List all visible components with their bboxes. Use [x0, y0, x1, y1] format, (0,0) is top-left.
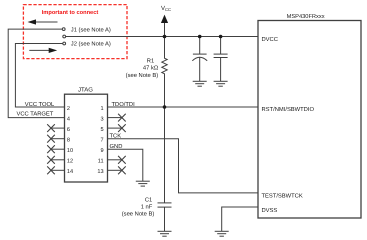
svg-text:JTAG: JTAG [78, 87, 93, 94]
TCK wire to TEST [108, 139, 259, 193]
svg-text:5: 5 [100, 127, 103, 133]
pin6 nc wire [51, 127, 65, 129]
pin10 nc wire [51, 148, 65, 150]
X pin5 [118, 124, 126, 132]
svg-text:R1: R1 [147, 58, 154, 64]
pin12 nc wire [51, 159, 65, 161]
junction dot TDO/R1 [163, 105, 167, 109]
Vcc arrow head [161, 15, 168, 23]
pin11 nc wire [108, 159, 122, 161]
jumper J1 pin circle [62, 28, 65, 31]
svg-text:J2 (see Note A): J2 (see Note A) [71, 41, 111, 48]
svg-text:2: 2 [67, 106, 70, 112]
svg-text:(see Note B): (see Note B) [126, 72, 159, 79]
svg-text:(see Note B): (see Note B) [122, 210, 155, 217]
X pin6 [47, 124, 55, 132]
svg-text:3: 3 [100, 117, 103, 123]
svg-text:8: 8 [67, 138, 70, 144]
ground for C1 [158, 231, 172, 236]
ground for CB [214, 81, 228, 86]
X pin14 [47, 166, 55, 174]
capacitor CA vertical bottom [199, 57, 201, 81]
resistor R1 [162, 37, 167, 108]
Vcc symbol stem [164, 23, 166, 37]
svg-text:GND: GND [110, 143, 123, 150]
capacitor CA vertical top [199, 37, 201, 55]
svg-text:47 kΩ: 47 kΩ [143, 65, 159, 72]
pin8 nc wire [51, 138, 65, 140]
pin5 nc wire [108, 127, 122, 129]
jumper mid pin circle [63, 35, 66, 38]
ground for CA [193, 81, 207, 86]
svg-text:11: 11 [98, 159, 104, 165]
pin3 nc wire [108, 117, 122, 119]
junction dot Vcc/R1 [163, 35, 167, 39]
svg-text:MSP430FRxxx: MSP430FRxxx [287, 14, 325, 20]
svg-text:VCC TOOL: VCC TOOL [25, 101, 55, 108]
svg-text:TDO/TDI: TDO/TDI [112, 101, 136, 108]
svg-text:14: 14 [67, 169, 73, 175]
capacitor CB plates [214, 53, 228, 55]
MSP430 box [258, 21, 361, 219]
svg-text:9: 9 [100, 148, 103, 154]
svg-text:DVCC: DVCC [262, 36, 278, 43]
svg-text:C1: C1 [145, 197, 152, 204]
Vcc rail wire [66, 36, 258, 38]
arrow left head [28, 19, 37, 24]
ground for pin9 [136, 181, 150, 186]
capacitor CA plates [193, 53, 207, 55]
svg-text:J1 (see Note A): J1 (see Note A) [71, 26, 111, 33]
capacitor CB vertical top [220, 37, 222, 55]
GND pin9 wire [108, 149, 143, 181]
capacitor C1 wire bottom [164, 207, 166, 231]
arrow right shaft [29, 49, 49, 51]
X pin3 [118, 114, 126, 122]
X pin13 [118, 166, 126, 174]
capacitor C1 plates [158, 202, 172, 204]
svg-text:1 nF: 1 nF [141, 204, 153, 210]
X pin12 [47, 156, 55, 164]
DVSS wire [222, 207, 258, 231]
X pin11 [118, 156, 126, 164]
svg-text:12: 12 [67, 159, 73, 165]
JTAG connector box [65, 94, 108, 182]
capacitor C1 wire top [164, 107, 166, 203]
pin13 nc wire [108, 169, 122, 171]
svg-text:TCK: TCK [110, 133, 122, 140]
svg-text:7: 7 [100, 138, 103, 144]
svg-text:1: 1 [100, 106, 103, 112]
svg-text:DVSS: DVSS [262, 207, 278, 214]
pin14 nc wire [51, 169, 65, 171]
wire J2 to VCC TOOL [15, 44, 64, 108]
junction dot capA [198, 35, 202, 39]
capacitor CB vertical bottom [220, 58, 222, 82]
svg-text:4: 4 [67, 117, 70, 123]
arrow right head [49, 48, 58, 53]
ground for DVSS [215, 231, 229, 236]
svg-text:13: 13 [97, 169, 103, 175]
jumper J2 pin circle [63, 42, 66, 45]
no-connect X marks [47, 114, 126, 175]
svg-text:RST/NMI/SBWTDIO: RST/NMI/SBWTDIO [262, 106, 315, 113]
X pin10 [47, 145, 55, 153]
svg-text:6: 6 [67, 127, 70, 133]
wire J1 to VCC TARGET [8, 29, 64, 118]
dashed importance box [23, 5, 127, 59]
X pin8 [47, 135, 55, 143]
svg-text:10: 10 [67, 148, 73, 154]
svg-text:VCC TARGET: VCC TARGET [17, 111, 54, 118]
TDO/TDI wire to RST [108, 106, 259, 108]
arrow left shaft [35, 21, 58, 23]
svg-text:TEST/SBWTCK: TEST/SBWTCK [262, 193, 303, 200]
svg-text:Important to connect: Important to connect [42, 10, 99, 16]
junction dot capB [219, 35, 223, 39]
